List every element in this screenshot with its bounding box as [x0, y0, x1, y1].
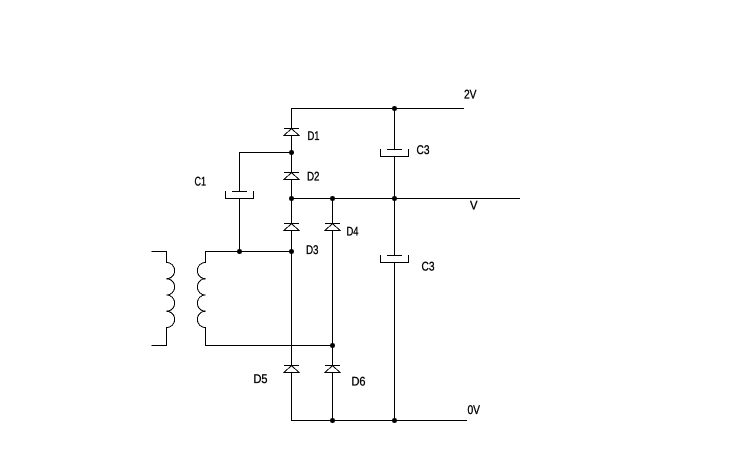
- wire lower C3 bottom to 0V rail: [394, 263, 396, 421]
- wire C1 bottom to secondary top node: [239, 199, 241, 252]
- diode D2: [284, 173, 299, 180]
- transformer T1 secondary winding: [197, 252, 332, 346]
- wire D4 anode down to secondary bottom node: [332, 231, 334, 346]
- diode D6: [325, 366, 340, 373]
- junction on 2V rail at C3 column: [392, 106, 397, 111]
- svg-text:D2: D2: [307, 170, 320, 184]
- svg-text:D1: D1: [308, 129, 320, 143]
- wire D3 anode to secondary top node: [291, 231, 293, 252]
- transformer T1 primary winding: [152, 252, 175, 346]
- wire V rail to D3 cathode: [291, 199, 293, 224]
- diode D5: [284, 366, 299, 373]
- wire 2V rail corner down to D1 cathode: [291, 108, 293, 129]
- wire 0V rail: [291, 420, 467, 422]
- svg-text:C3: C3: [422, 260, 435, 274]
- wire C3 column from 2V rail: [394, 109, 396, 150]
- wire D6 anode to 0V rail: [332, 373, 334, 421]
- junction secondary top / diode column: [289, 249, 294, 254]
- capacitor C1: [225, 191, 254, 199]
- diode D3: [284, 224, 299, 231]
- wire V rail down to lower C3: [394, 199, 396, 256]
- diode D1: [284, 129, 299, 136]
- wire D2 anode to V rail: [291, 180, 293, 199]
- svg-text:2V: 2V: [464, 88, 477, 102]
- junction V rail / diode column: [289, 196, 294, 201]
- svg-text:D3: D3: [306, 243, 319, 257]
- junction secondary bottom / D4-D6 column: [330, 343, 335, 348]
- svg-text:D6: D6: [352, 375, 366, 389]
- junction 0V rail / D6 column: [330, 418, 335, 423]
- wire C1 top tap: [239, 152, 292, 192]
- svg-text:D4: D4: [347, 225, 359, 239]
- wire secondary bottom node to D6: [332, 346, 334, 366]
- wire D5 anode to 0V rail corner: [291, 373, 293, 422]
- svg-text:C3: C3: [417, 143, 430, 157]
- wire V rail: [292, 198, 521, 200]
- capacitor C3 (upper): [380, 149, 409, 157]
- svg-text:0V: 0V: [468, 403, 481, 417]
- wire D4 column from V rail: [332, 199, 334, 224]
- wire D1 anode to D2 cathode: [291, 136, 293, 173]
- svg-text:D5: D5: [254, 372, 268, 386]
- junction V rail / C3 column: [392, 196, 397, 201]
- diode D4: [325, 224, 340, 231]
- junction V rail / D4 column: [330, 196, 335, 201]
- svg-text:C1: C1: [195, 175, 207, 189]
- wire 2V rail: [291, 108, 464, 110]
- capacitor C3 (lower): [380, 255, 409, 263]
- junction 0V rail / C3 column: [392, 418, 397, 423]
- junction node between D1 and D2 (C1 tap): [289, 150, 294, 155]
- junction secondary top / C1: [237, 249, 242, 254]
- svg-text:V: V: [470, 199, 478, 213]
- wire upper C3 bottom to V rail: [394, 157, 396, 199]
- wire diode column down to D5: [291, 252, 293, 366]
